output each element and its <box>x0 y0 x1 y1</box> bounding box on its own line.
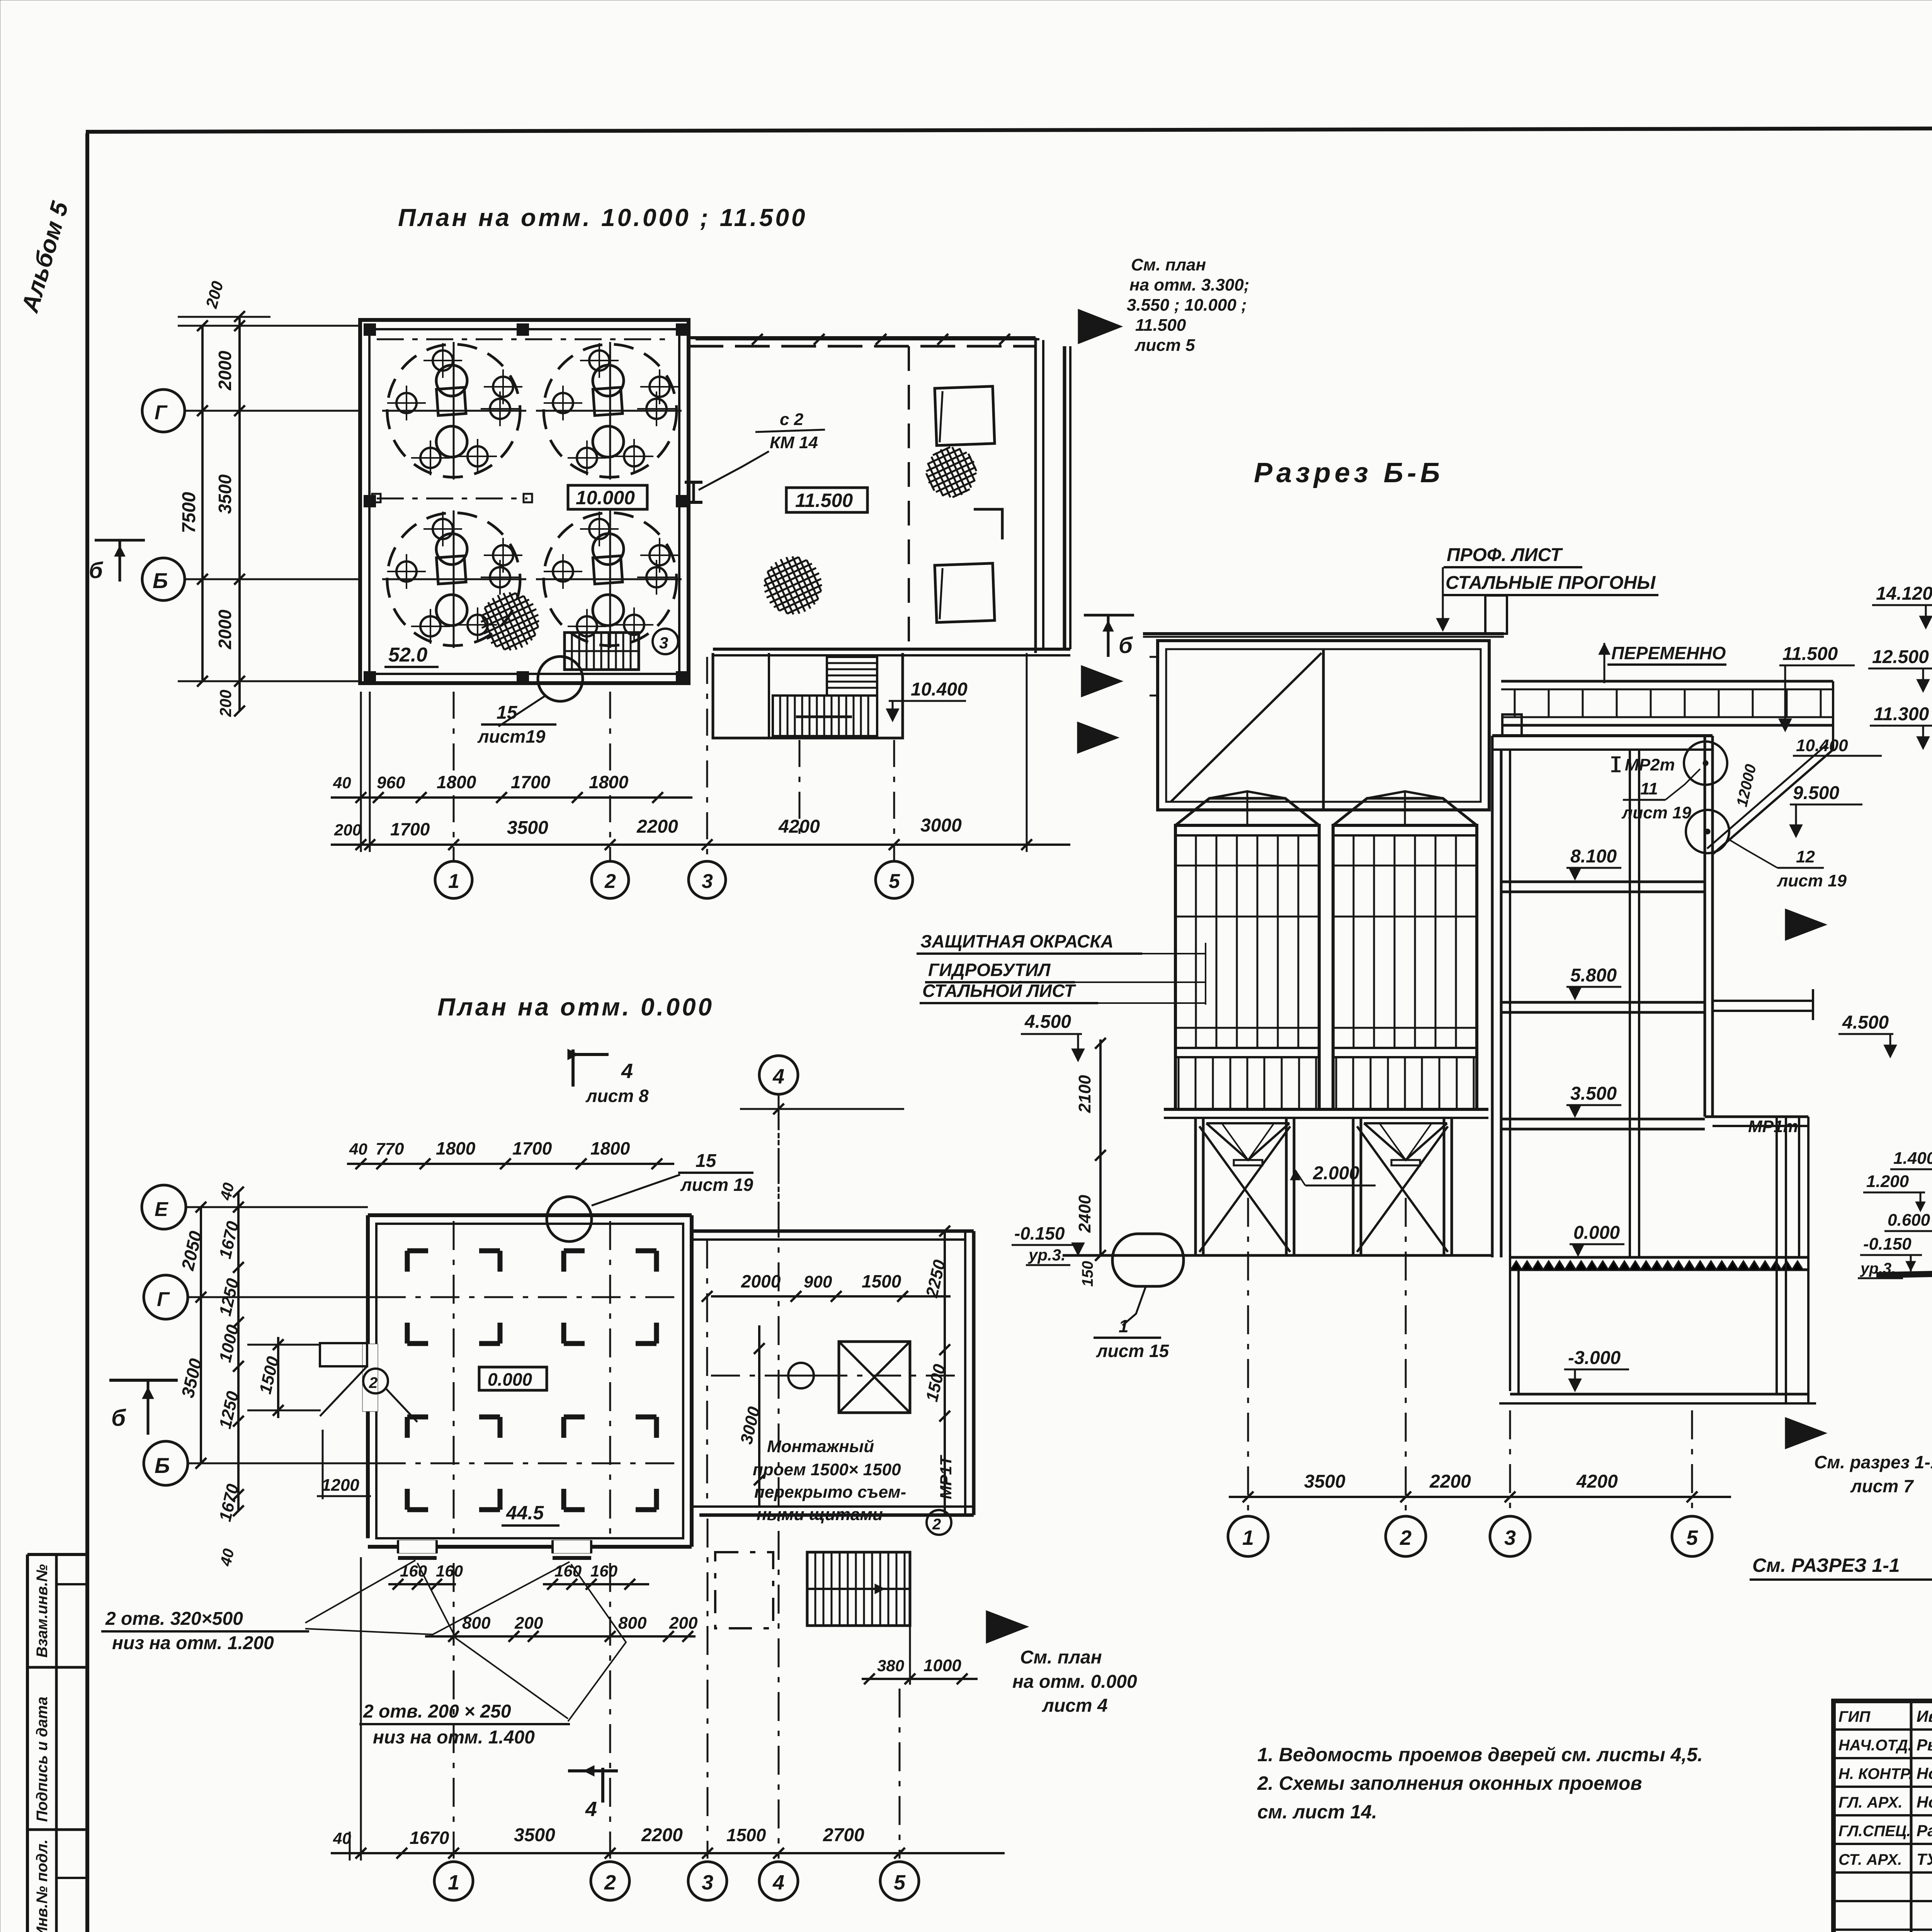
svg-text:1.200: 1.200 <box>1866 1172 1909 1191</box>
svg-text:200: 200 <box>669 1614 698 1633</box>
svg-text:2: 2 <box>604 1871 616 1894</box>
svg-text:10.400: 10.400 <box>1796 736 1848 755</box>
svg-text:8.100: 8.100 <box>1570 846 1617 867</box>
svg-text:160: 160 <box>436 1562 463 1580</box>
svg-text:ЗАЩИТНАЯ ОКРАСКА: ЗАЩИТНАЯ ОКРАСКА <box>920 931 1114 951</box>
svg-text:ПЕРЕМЕННО: ПЕРЕМЕННО <box>1611 643 1726 663</box>
svg-text:4: 4 <box>585 1798 597 1821</box>
svg-text:лист 19: лист 19 <box>1777 871 1847 890</box>
svg-text:на отм. 3.300;: на отм. 3.300; <box>1129 276 1249 294</box>
svg-text:160: 160 <box>590 1562 617 1580</box>
svg-text:ными щитами: ными щитами <box>757 1505 883 1524</box>
svg-text:-3.000: -3.000 <box>1568 1348 1621 1368</box>
svg-text:1.400: 1.400 <box>1893 1149 1932 1168</box>
svg-text:СТ. АРХ.: СТ. АРХ. <box>1838 1851 1902 1868</box>
svg-text:Н. КОНТР.: Н. КОНТР. <box>1838 1765 1913 1782</box>
svg-text:4.500: 4.500 <box>1024 1012 1071 1032</box>
svg-text:52.0: 52.0 <box>388 644 427 666</box>
svg-text:Норманн: Норманн <box>1917 1764 1932 1782</box>
svg-text:на отм. 0.000: на отм. 0.000 <box>1012 1672 1137 1692</box>
svg-text:б: б <box>1119 633 1133 658</box>
svg-text:4: 4 <box>772 1065 784 1088</box>
svg-text:2: 2 <box>604 870 616 893</box>
svg-text:Взам.инв.№: Взам.инв.№ <box>34 1564 51 1658</box>
svg-text:3000: 3000 <box>920 815 962 836</box>
svg-text:2.000: 2.000 <box>1313 1163 1359 1184</box>
svg-text:лист 19: лист 19 <box>1621 803 1692 822</box>
svg-text:Иванова: Иванова <box>1917 1707 1932 1725</box>
svg-text:3500: 3500 <box>1304 1471 1345 1492</box>
svg-text:3500: 3500 <box>507 818 548 838</box>
svg-text:4: 4 <box>621 1060 633 1083</box>
svg-text:ГЛ.СПЕЦ.: ГЛ.СПЕЦ. <box>1838 1823 1911 1840</box>
svg-text:План на отм. 10.000 ; 11: План на отм. 10.000 ; 11.500 <box>398 204 808 231</box>
svg-text:0.600: 0.600 <box>1888 1211 1930 1230</box>
svg-text:ТУСОВА: ТУСОВА <box>1917 1850 1932 1868</box>
svg-text:ГЛ. АРХ.: ГЛ. АРХ. <box>1838 1794 1903 1811</box>
svg-text:СТАЛЬНЫЕ ПРОГОНЫ: СТАЛЬНЫЕ ПРОГОНЫ <box>1446 573 1656 593</box>
svg-text:11.500: 11.500 <box>795 490 853 511</box>
svg-text:МР2т: МР2т <box>1625 755 1675 774</box>
svg-text:2: 2 <box>369 1374 378 1391</box>
svg-text:лист 5: лист 5 <box>1134 336 1195 355</box>
svg-text:2000: 2000 <box>741 1271 781 1291</box>
svg-text:0.000: 0.000 <box>1573 1223 1620 1243</box>
svg-text:770: 770 <box>376 1139 404 1158</box>
svg-text:Б: Б <box>155 1453 170 1478</box>
svg-text:1670: 1670 <box>410 1828 449 1848</box>
svg-text:лист 8: лист 8 <box>585 1086 649 1106</box>
svg-text:План на отм. 0.000: План на отм. 0.000 <box>437 993 714 1021</box>
svg-text:СТАЛЬНОЙ ЛИСТ: СТАЛЬНОЙ ЛИСТ <box>922 981 1077 1001</box>
svg-text:0.000: 0.000 <box>488 1369 532 1389</box>
svg-text:10.400: 10.400 <box>911 679 968 700</box>
svg-text:НАЧ.ОТД.: НАЧ.ОТД. <box>1838 1737 1912 1754</box>
svg-text:11: 11 <box>1640 779 1658 798</box>
svg-text:40: 40 <box>333 774 351 792</box>
svg-text:3.550 ; 10.000 ;: 3.550 ; 10.000 ; <box>1127 296 1247 315</box>
svg-text:2: 2 <box>1400 1526 1412 1549</box>
svg-text:4.500: 4.500 <box>1842 1012 1889 1033</box>
svg-text:10.000: 10.000 <box>576 487 635 509</box>
svg-text:2 отв. 200 × 250: 2 отв. 200 × 250 <box>363 1701 511 1722</box>
svg-text:1: 1 <box>448 870 459 893</box>
svg-text:40: 40 <box>333 1829 351 1847</box>
svg-text:2700: 2700 <box>823 1825 864 1845</box>
svg-text:1: 1 <box>1242 1526 1254 1549</box>
svg-text:2400: 2400 <box>1075 1195 1094 1233</box>
svg-text:150: 150 <box>1079 1261 1096 1287</box>
svg-text:2: 2 <box>932 1516 941 1533</box>
svg-text:Инв.№ подл.: Инв.№ подл. <box>34 1839 51 1932</box>
svg-text:Рашевский: Рашевский <box>1917 1821 1932 1840</box>
svg-text:МР1Т: МР1Т <box>937 1455 955 1499</box>
svg-text:200: 200 <box>216 690 235 717</box>
svg-text:См. РАЗРЕЗ 1-1: См. РАЗРЕЗ 1-1 <box>1752 1554 1900 1576</box>
svg-text:2 отв. 320×500: 2 отв. 320×500 <box>105 1609 243 1629</box>
svg-text:1. Ведомость проемов дверей см: 1. Ведомость проемов дверей см. листы 4,… <box>1257 1744 1703 1765</box>
svg-text:5: 5 <box>1686 1526 1698 1549</box>
svg-text:12.500: 12.500 <box>1872 647 1929 667</box>
svg-text:3500: 3500 <box>215 474 235 514</box>
svg-text:11.500: 11.500 <box>1135 316 1186 335</box>
svg-text:МР1т: МР1т <box>1748 1117 1798 1136</box>
svg-text:3: 3 <box>659 634 668 652</box>
svg-text:1800: 1800 <box>589 772 629 792</box>
svg-text:См. разрез 1-1: См. разрез 1-1 <box>1814 1452 1932 1472</box>
svg-text:Г: Г <box>157 1288 170 1311</box>
svg-text:ГИДРОБУТИЛ: ГИДРОБУТИЛ <box>928 960 1051 980</box>
svg-text:ПРОФ. ЛИСТ: ПРОФ. ЛИСТ <box>1447 545 1563 565</box>
svg-text:Монтажный: Монтажный <box>767 1437 874 1456</box>
svg-text:14.120: 14.120 <box>1876 583 1932 604</box>
svg-text:5: 5 <box>894 1871 906 1894</box>
svg-text:ур.3.: ур.3. <box>1028 1246 1066 1264</box>
svg-text:1200: 1200 <box>321 1476 359 1495</box>
svg-text:2. Схемы заполнения оконных пр: 2. Схемы заполнения оконных проемов <box>1257 1772 1642 1794</box>
svg-text:200: 200 <box>514 1614 543 1633</box>
svg-text:2200: 2200 <box>636 816 678 837</box>
svg-text:7500: 7500 <box>179 492 199 533</box>
svg-text:низ на отм. 1.200: низ на отм. 1.200 <box>112 1633 274 1653</box>
svg-text:5: 5 <box>889 870 900 893</box>
svg-text:2200: 2200 <box>641 1825 683 1845</box>
svg-text:-0.150: -0.150 <box>1863 1235 1912 1253</box>
svg-text:200: 200 <box>334 821 361 839</box>
svg-text:лист 19: лист 19 <box>680 1175 753 1195</box>
svg-text:44.5: 44.5 <box>506 1502 544 1524</box>
svg-text:3: 3 <box>702 870 713 893</box>
svg-text:с 2: с 2 <box>780 410 804 429</box>
svg-text:лист 15: лист 15 <box>1096 1341 1170 1361</box>
svg-text:1800: 1800 <box>437 772 476 792</box>
svg-text:Подпись и дата: Подпись и дата <box>34 1697 51 1822</box>
svg-text:5.800: 5.800 <box>1570 965 1617 986</box>
svg-text:1800: 1800 <box>590 1138 630 1158</box>
svg-text:2200: 2200 <box>1429 1471 1471 1492</box>
svg-text:9.500: 9.500 <box>1793 783 1839 803</box>
svg-text:Рыбкина: Рыбкина <box>1917 1736 1932 1754</box>
svg-text:1800: 1800 <box>436 1138 476 1158</box>
svg-text:3: 3 <box>702 1871 713 1894</box>
svg-text:лист 4: лист 4 <box>1042 1696 1108 1716</box>
svg-text:1: 1 <box>448 1871 459 1894</box>
svg-text:1500: 1500 <box>726 1825 766 1845</box>
svg-text:ГИП: ГИП <box>1838 1708 1871 1725</box>
svg-text:1700: 1700 <box>512 1138 552 1158</box>
svg-text:Е: Е <box>155 1198 168 1221</box>
svg-text:лист 7: лист 7 <box>1850 1476 1914 1496</box>
svg-text:2100: 2100 <box>1075 1075 1094 1113</box>
svg-text:4200: 4200 <box>1576 1471 1618 1492</box>
svg-text:380: 380 <box>877 1656 904 1675</box>
svg-text:2000: 2000 <box>215 350 235 391</box>
svg-text:160: 160 <box>400 1562 427 1580</box>
svg-text:3500: 3500 <box>514 1825 555 1845</box>
svg-text:1700: 1700 <box>511 772 551 792</box>
svg-text:1: 1 <box>1119 1316 1129 1336</box>
svg-text:Г: Г <box>155 401 168 424</box>
svg-text:12: 12 <box>1796 847 1815 866</box>
svg-text:Разрез Б-Б: Разрез Б-Б <box>1254 457 1444 488</box>
svg-text:3: 3 <box>1504 1526 1516 1549</box>
svg-text:40: 40 <box>349 1140 367 1158</box>
svg-text:См. план: См. план <box>1020 1647 1102 1668</box>
svg-text:800: 800 <box>618 1614 647 1633</box>
svg-text:15: 15 <box>696 1151 717 1171</box>
svg-text:11.300: 11.300 <box>1874 704 1929 724</box>
svg-text:15: 15 <box>497 702 518 723</box>
svg-text:см. лист 14.: см. лист 14. <box>1257 1801 1377 1823</box>
svg-text:-0.150: -0.150 <box>1014 1223 1065 1243</box>
svg-text:б: б <box>111 1405 126 1431</box>
svg-text:Норманн: Норманн <box>1917 1793 1932 1811</box>
svg-text:КМ 14: КМ 14 <box>770 433 818 452</box>
svg-text:1500: 1500 <box>862 1271 901 1291</box>
svg-text:См. план: См. план <box>1131 255 1206 274</box>
svg-text:4200: 4200 <box>778 816 820 837</box>
svg-text:Б: Б <box>153 568 168 593</box>
svg-text:лист19: лист19 <box>477 726 546 747</box>
svg-text:160: 160 <box>554 1562 582 1580</box>
svg-text:900: 900 <box>804 1272 832 1291</box>
svg-text:проем 1500× 1500: проем 1500× 1500 <box>753 1460 901 1479</box>
svg-text:960: 960 <box>377 773 405 792</box>
svg-text:1000: 1000 <box>923 1656 961 1675</box>
svg-text:б: б <box>89 558 104 583</box>
svg-text:4: 4 <box>772 1871 784 1894</box>
svg-text:3.500: 3.500 <box>1570 1083 1617 1104</box>
svg-text:2000: 2000 <box>215 609 235 650</box>
svg-text:1700: 1700 <box>390 819 430 839</box>
svg-text:перекрыто съем-: перекрыто съем- <box>754 1483 906 1502</box>
svg-text:11.500: 11.500 <box>1782 644 1838 664</box>
